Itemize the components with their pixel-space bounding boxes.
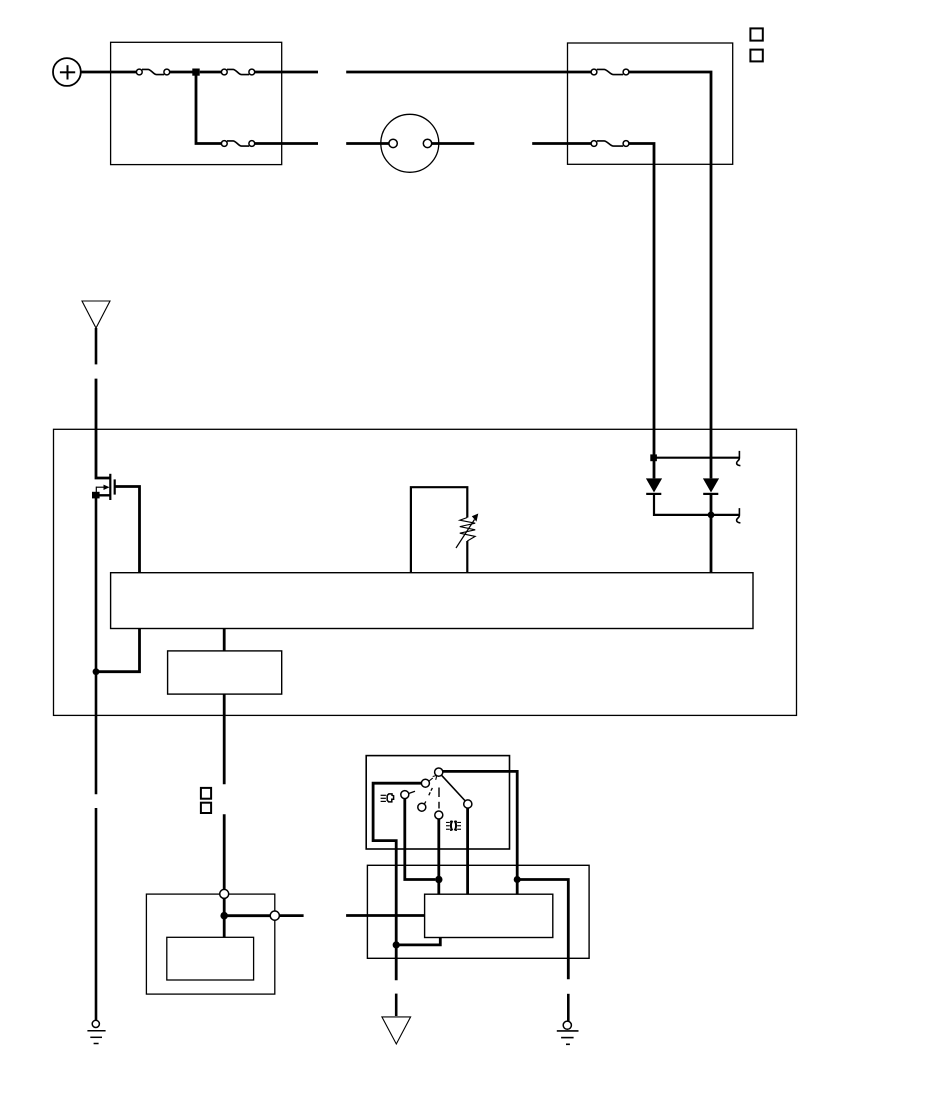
variable resistor VR1 frame	[411, 487, 467, 573]
ground G3 triangle	[382, 1017, 411, 1044]
diode D1	[646, 478, 662, 494]
wire resume to right fuse box top	[346, 71, 591, 74]
dimmer relay box	[367, 865, 589, 958]
node diode junction dot	[650, 454, 657, 461]
fuse F5	[591, 141, 629, 147]
wire amp junction right	[224, 914, 270, 917]
wire F3 out to connector break	[255, 142, 318, 145]
wire F2 out to connector break	[255, 71, 318, 74]
page connector square A	[750, 28, 762, 40]
relay coil rectangle	[425, 894, 553, 937]
wire D1 to bottom rail	[654, 494, 739, 515]
page connector square D	[201, 803, 211, 813]
wire main line inside unit down	[95, 498, 98, 795]
node bottom rail dot	[708, 512, 715, 519]
wire F5 right then down to diode D1	[629, 144, 654, 479]
fuse F1	[136, 69, 169, 75]
battery B1 positive terminal	[53, 58, 81, 86]
wire main line resume to ground G1	[95, 808, 98, 1020]
page connector square B	[750, 50, 762, 62]
node relay dot E	[514, 876, 521, 883]
switch contact circles	[401, 768, 472, 819]
wire relay branch to coil bottom	[396, 938, 440, 945]
node relay dot F	[393, 941, 400, 948]
switch dash to contact 3	[408, 791, 415, 793]
wire resume to ignition switch	[346, 142, 389, 145]
wire contact 2 left and down	[373, 783, 421, 980]
ground G1	[87, 1020, 105, 1043]
ground G2	[557, 1021, 579, 1044]
wire sub unit down to connector break	[223, 694, 226, 784]
wire resume down to amplifier box	[223, 814, 226, 889]
fuse box (dash)	[568, 43, 733, 164]
wire F4 right then down to diode D2	[629, 72, 711, 478]
wire pivot out right and down	[443, 771, 517, 894]
wire contact 5 down to relay pin	[437, 819, 440, 894]
wire resume to right fuse box bottom	[532, 142, 591, 145]
wire left feed into relay coil	[346, 914, 425, 917]
fuse F2	[221, 69, 254, 75]
bus bar rectangle	[111, 573, 753, 629]
parking light icon	[446, 821, 461, 831]
fuse F4	[591, 69, 629, 75]
diode D2	[703, 478, 719, 494]
wire contact 6 down to relay pin	[466, 808, 469, 894]
amp terminal circle top	[220, 889, 229, 898]
wire transistor drain	[115, 487, 140, 573]
radio unit box	[54, 429, 797, 715]
wire battery to fuse box	[81, 71, 137, 74]
connector hook bottom	[737, 508, 741, 523]
switch movement arrow	[429, 775, 437, 780]
fuse F3	[221, 141, 254, 147]
wire contact 3 down to relay	[405, 799, 436, 880]
switch dashed line to contact 5	[438, 788, 440, 809]
wire circle component out	[432, 142, 475, 145]
node junction dot in fuse box	[192, 69, 199, 76]
connector hook top	[737, 451, 741, 466]
ignition switch connector (circle component)	[381, 114, 439, 172]
wire F1 to junction	[170, 71, 193, 74]
node transistor source dot	[92, 492, 100, 499]
wire amp terminal down to coil	[223, 898, 226, 937]
amp terminal circle right	[270, 911, 279, 920]
variable resistor VR1 zigzag	[460, 518, 475, 542]
wire bus to sub unit	[223, 629, 226, 651]
wire junction to F2	[200, 71, 222, 74]
switch blade wire	[442, 775, 466, 801]
page connector square C	[201, 788, 211, 799]
sub unit rectangle	[168, 651, 282, 694]
amplifier inner rectangle	[167, 937, 254, 980]
lighting switch box	[366, 756, 509, 849]
headlight icon	[381, 794, 394, 802]
wire amp out right	[279, 914, 303, 917]
variable resistor VR1 arrow	[456, 520, 475, 549]
antenna symbol	[82, 301, 110, 328]
wire resume down to ground triangle	[395, 994, 398, 1016]
switch dashed line to contact 4	[424, 788, 432, 804]
wire relay dot E right and down to ground G2	[517, 880, 568, 980]
node dot on main line	[93, 668, 100, 675]
wire antenna down	[95, 328, 98, 364]
node amp dot	[220, 912, 228, 920]
wire drain below bus to main ground line	[96, 629, 140, 672]
wire D2 down to bus	[710, 494, 713, 573]
wire diode top rail	[654, 457, 739, 459]
amplifier outer box	[146, 894, 274, 994]
fuse box (under-hood)	[111, 42, 282, 164]
wire antenna resume into radio unit	[96, 379, 110, 478]
node relay dot B	[435, 876, 442, 883]
wire junction down to fuse F3 row	[196, 74, 221, 144]
transistor Q1	[96, 474, 115, 500]
wire resume to ground G2	[567, 994, 570, 1022]
